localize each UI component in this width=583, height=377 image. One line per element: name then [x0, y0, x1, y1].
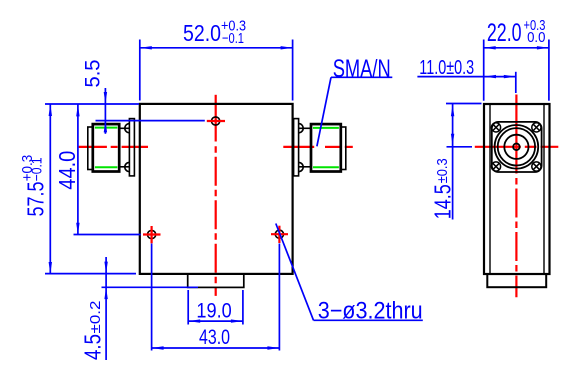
red horizontal axis front view: [79, 146, 107, 148]
N flange screw bottom-left: [491, 162, 500, 171]
N flange screw top-left: [491, 123, 500, 132]
right SMA connector barrel: [311, 124, 341, 171]
dimension 14.5 arrows: [451, 104, 454, 146]
right SMA connector cap: [341, 127, 346, 170]
side view bottom tab: [487, 274, 546, 287]
right SMA flange arcs: [299, 124, 304, 172]
red vertical centerline side view: [515, 95, 517, 174]
left SMA green seam top: [95, 127, 118, 129]
red cross bottom-right hole: [271, 226, 288, 243]
N flange square: [492, 122, 542, 172]
red horizontal centerline side view: [475, 146, 521, 148]
dimension 11.0 lines: [417, 72, 515, 93]
dimension 14.5 lines: [446, 104, 482, 220]
bottom tab (front view): [188, 274, 244, 288]
svg-text:43.0: 43.0: [199, 326, 230, 349]
dimension 52.0 lines: [140, 40, 293, 101]
side view body outline: [484, 104, 550, 274]
dimension 5.5 arrows: [104, 92, 107, 132]
dimension 4.5 arrows: [104, 262, 107, 300]
left SMA green seam bottom: [95, 166, 118, 168]
svg-text:57.5: 57.5: [22, 182, 48, 217]
dimension 22.0 arrows: [484, 46, 549, 49]
left SMA flange arcs: [125, 124, 130, 172]
dimension 22.0 lines: [484, 40, 549, 101]
label SMA/N leader: [317, 77, 392, 146]
svg-text:52.0: 52.0: [183, 20, 221, 46]
label 3-dia3.2 thru leader: [276, 224, 423, 321]
svg-text:±0.2: ±0.2: [87, 301, 104, 334]
dimension 5.5 lines: [96, 88, 205, 134]
svg-text:44.0: 44.0: [54, 151, 80, 190]
dimension 44.0 arrows: [76, 104, 79, 234]
N connector circles: [495, 125, 539, 169]
svg-text:±0.3: ±0.3: [434, 158, 451, 183]
N flange screw bottom-right: [532, 162, 541, 171]
svg-text:22.0: 22.0: [487, 19, 522, 47]
dimension 19.0 lines: [188, 290, 243, 325]
top mounting hole: [212, 117, 220, 125]
bottom-left mounting hole: [148, 230, 156, 238]
left SMA mounting plate: [129, 119, 134, 176]
dimension 43.0 lines: [152, 244, 280, 351]
side view inner edge lines: [490, 104, 544, 274]
N flange screw top-right: [532, 123, 541, 132]
dimension 44.0 lines: [74, 104, 141, 235]
right SMA connector mounting plate: [294, 119, 299, 176]
main body outline (front view): [140, 104, 293, 274]
svg-text:−0.1: −0.1: [222, 31, 244, 47]
svg-text:19.0: 19.0: [196, 299, 231, 322]
svg-text:SMA/N: SMA/N: [333, 55, 391, 83]
svg-text:−0.1: −0.1: [29, 157, 45, 181]
right SMA green seam top: [313, 127, 339, 129]
svg-text:3−ø3.2thru: 3−ø3.2thru: [318, 298, 423, 325]
dimension 43.0 arrows: [152, 346, 280, 349]
right SMA green seam bottom: [313, 166, 339, 168]
dimension 19.0 arrows: [188, 319, 243, 322]
dimension 4.5 lines: [102, 257, 199, 360]
dimension 11.0 arrows: [484, 75, 516, 78]
svg-text:4.5: 4.5: [80, 334, 106, 360]
red vertical centerline front view: [215, 95, 217, 142]
red cross top hole: [207, 120, 225, 122]
left SMA connector cap: [88, 127, 93, 170]
left SMA flange lines: [119, 128, 129, 167]
dimension 57.5 arrows: [49, 104, 52, 274]
svg-text:0.0: 0.0: [527, 29, 545, 46]
bottom-right mounting hole: [275, 230, 283, 238]
dimension 52.0 arrows: [140, 46, 293, 49]
svg-text:11.0±0.3: 11.0±0.3: [419, 57, 474, 79]
left SMA connector barrel: [93, 124, 119, 171]
dimension 57.5 lines: [45, 104, 139, 274]
svg-text:5.5: 5.5: [81, 60, 104, 88]
red cross bottom-left hole: [143, 226, 161, 243]
right SMA flange lines: [299, 128, 311, 167]
svg-text:14.5: 14.5: [430, 184, 456, 219]
